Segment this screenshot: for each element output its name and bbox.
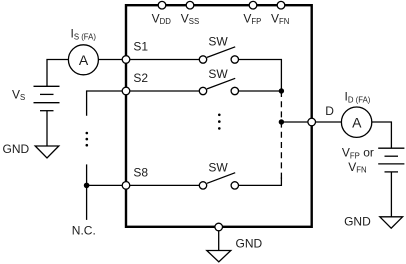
switch SW8 pole contact [199,182,206,189]
battery VFP/VFN long plate 2 [378,163,404,165]
svg-text:A: A [79,52,89,68]
terminal VSS [186,1,194,9]
svg-text:ID (FA): ID (FA) [345,90,371,105]
terminal VFP [249,1,257,9]
battery VFP/VFN long plate 1 [378,147,404,149]
svg-text:GND: GND [236,237,263,251]
ellipsis dots inside box [218,114,221,130]
terminal VFN [277,1,285,9]
terminal VDD [158,1,166,9]
svg-text:VS: VS [12,87,25,102]
terminal S1 [122,56,130,64]
switch SW8 throw contact [231,182,238,189]
wire S2 to NC stub [87,91,123,116]
svg-text:VFP: VFP [243,12,261,27]
svg-text:SW: SW [208,67,228,81]
svg-text:GND: GND [344,215,371,229]
svg-text:VSS: VSS [181,12,199,27]
DUT box U1 [126,5,312,227]
ammeter ID circle [341,107,371,137]
battery VS short plate 1 [40,93,54,95]
svg-text:SW: SW [208,34,228,48]
wire ammeter IS to S1 pole [99,59,200,61]
ground symbol left [35,146,59,158]
switch SW2 throw contact [231,87,238,94]
battery VS short plate 2 [40,110,54,112]
wire NC vertical upper [86,164,88,185]
svg-text:IS (FA): IS (FA) [71,27,97,42]
switch SW2 blade [207,78,235,89]
svg-text:S8: S8 [133,165,148,179]
terminal S8 [122,182,130,190]
wire bottom GND terminal to ground [218,227,220,251]
switch SW1 blade [207,47,235,58]
svg-text:SW: SW [208,160,228,174]
wire S1 throw to bus [239,60,282,92]
svg-text:N.C.: N.C. [72,224,96,238]
ground symbol right [380,217,403,228]
ground symbol bottom [207,251,231,262]
wire right battery to ground [390,172,392,217]
battery VFP/VFN short plate 2 [385,171,399,173]
battery VS long plate 1 [34,85,60,87]
svg-text:S1: S1 [133,39,148,53]
switch SW1 pole contact [199,56,206,63]
svg-text:D: D [325,104,334,118]
wire S2 throw to bus [239,90,282,92]
switch SW1 throw contact [231,56,238,63]
wire S2 to pole [130,90,199,92]
wire VS battery top to ammeter IS [47,60,68,87]
junction dot bus row2 [279,88,284,93]
svg-text:S2: S2 [133,71,148,85]
terminal S2 [122,87,130,95]
junction dot bus node D [279,119,284,124]
wire D node to ammeter ID [281,121,341,123]
ellipsis dots left [86,132,89,147]
terminal GND bottom [215,223,223,231]
terminal D [308,118,316,126]
battery VS long plate 2 [34,102,60,104]
svg-text:VFN: VFN [348,160,366,175]
switch SW8 blade [207,173,235,184]
junction dot S8 left [84,183,90,189]
wire VS battery bottom to ground [46,111,48,146]
svg-text:VFN: VFN [271,12,289,27]
wire NC vertical lower [86,185,88,220]
svg-text:VDD: VDD [152,12,172,27]
svg-text:GND: GND [3,142,30,156]
wire S8 throw to bus corner [239,178,282,186]
wire ammeter ID to right battery [372,122,392,148]
ammeter IS circle [68,45,98,75]
wire S8 to junction [87,184,123,186]
wire S8 to pole [130,184,199,186]
svg-text:A: A [352,114,362,130]
wire dashed bus [280,91,282,179]
svg-text:VFP or: VFP or [342,146,374,161]
switch SW2 pole contact [199,87,206,94]
battery VFP/VFN short plate 1 [385,155,399,157]
